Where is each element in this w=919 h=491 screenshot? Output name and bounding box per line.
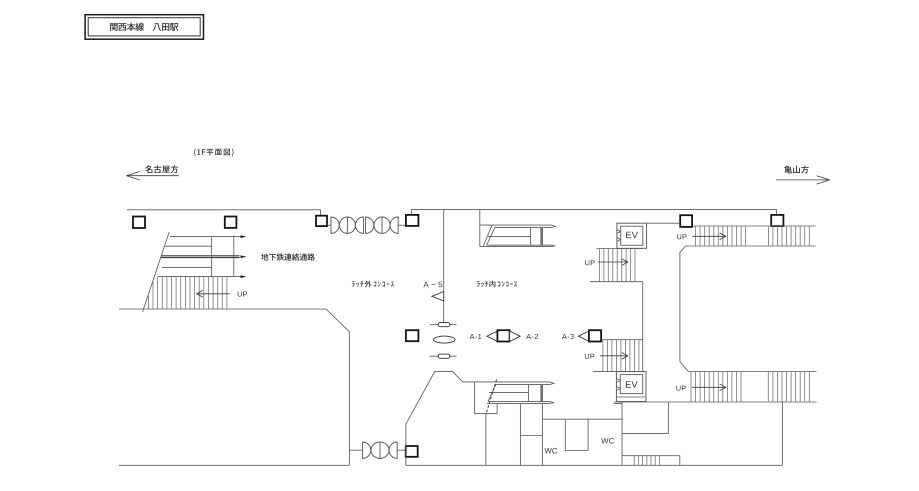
UP label subway stairs — [238, 292, 247, 297]
UP arrow lower right stairs — [692, 386, 726, 388]
small stairs bottom right — [622, 455, 680, 457]
UP arrow lower flight — [600, 355, 628, 357]
escalator (upper) body — [480, 225, 556, 246]
tick below EV — [614, 403, 622, 405]
UP arrow upper right stairs — [693, 235, 727, 237]
upper right stairs to platform — [692, 225, 815, 227]
lower right stair treads — [691, 372, 809, 403]
WC label left — [545, 448, 558, 454]
elevator EV lower box — [616, 372, 646, 402]
escalator (lower) body — [475, 382, 554, 404]
arrow to Kameyama (right) — [776, 179, 830, 181]
title box inner frame — [88, 18, 200, 36]
WC wall 3 — [541, 403, 543, 465]
pillar square at gate row left — [316, 216, 327, 226]
corridor wall left — [642, 282, 644, 372]
wall below escalator diagonal — [485, 415, 487, 466]
label 地下鉄連絡通路 (subway connecting passage) — [261, 253, 315, 260]
label 亀山方 (to Kameyama) — [784, 166, 809, 174]
lower right stairs top edge — [688, 371, 816, 373]
room right of lower EV — [622, 402, 668, 434]
corridor wall right with chamfers — [680, 246, 688, 372]
pillar square left of upper right stairs — [680, 215, 692, 227]
landing line 3 — [162, 267, 212, 269]
concourse wall right of EV — [647, 222, 681, 224]
room under escalator — [475, 382, 498, 414]
A-5 direction triangle — [432, 292, 444, 302]
landing verticals — [211, 237, 213, 277]
hall bottom wall left — [119, 464, 349, 466]
escalator link wall — [479, 210, 481, 247]
A-1/A-2 gate left triangle — [487, 331, 497, 341]
escalator dashed diagonal — [486, 380, 497, 415]
passage arrow 2 — [241, 255, 247, 258]
A-2 label — [526, 334, 538, 339]
landing bottom line — [158, 276, 241, 278]
A-3 gate square — [589, 330, 601, 341]
pillar square at gate row right — [406, 215, 419, 226]
hall bottom wall right — [406, 464, 783, 466]
passage arrow 1 — [241, 235, 247, 238]
top wall right segment — [412, 210, 777, 215]
A-1/A-2 gate right triangle — [510, 331, 520, 341]
EV label lower — [626, 381, 638, 387]
tick wire to ticket gates — [327, 224, 331, 226]
EV label upper — [626, 232, 638, 238]
passage arrow 3 — [241, 275, 247, 278]
WC stall box — [565, 419, 588, 450]
UP arrow upper flight — [598, 261, 629, 263]
UP label lower right stairs — [676, 386, 685, 391]
floor label (1F平面図) — [194, 149, 233, 157]
A-1 label — [470, 334, 482, 339]
entrance pillar square — [406, 446, 418, 457]
pillar square second — [225, 217, 237, 228]
elevator EV upper box — [617, 223, 647, 248]
ticket gate row (2 lanes) top — [331, 217, 398, 233]
arrow to Nagoya (left) — [127, 175, 179, 177]
lower flight top edge — [600, 339, 642, 341]
subway stair slanted edge — [143, 232, 170, 312]
WC wall 1 — [519, 403, 521, 465]
A-1/A-2 gate square — [497, 330, 509, 341]
subway passage landing outline — [170, 236, 234, 238]
entrance tick right — [397, 449, 405, 451]
inner wall with chamfer — [406, 371, 475, 465]
pillar ellipse in A-5 lane — [434, 336, 456, 343]
label 名古屋方 (to Nagoya) — [145, 165, 178, 173]
UP label lower flight — [585, 354, 594, 359]
label ラッチ外コンコース (outside-gate concourse) — [352, 281, 394, 288]
lower flight treads — [603, 340, 639, 372]
A-5 gate machine lower — [430, 355, 457, 357]
pillar square on upper right stairs — [771, 215, 783, 226]
title text 関西本線 八田駅 — [110, 23, 178, 31]
UP arrow subway stairs (left) — [197, 293, 230, 295]
A-3 gate triangle — [579, 331, 589, 341]
platform wall right — [781, 402, 783, 465]
upper flight treads — [599, 249, 635, 282]
lower right stairs bottom edge — [614, 401, 817, 403]
wall below EV lower — [621, 402, 623, 465]
handrail double line — [161, 255, 240, 257]
hall top wall — [119, 309, 349, 465]
pillar square far left — [133, 217, 145, 229]
WC corridor wall — [542, 418, 622, 420]
entrance tick left — [349, 449, 362, 451]
title box outer frame — [85, 15, 203, 40]
upper flight bottom edge — [590, 281, 643, 283]
UP label upper flight — [585, 260, 594, 265]
A-5 label — [423, 282, 442, 288]
A-5 gate machine upper — [430, 324, 457, 326]
upper flight stairs top edge — [596, 248, 643, 250]
entrance ticket gate (1 lane) — [363, 442, 398, 458]
A-3 label — [562, 334, 574, 339]
wall between concourses (A-5 lane) — [443, 210, 445, 323]
pillar square mid row — [406, 330, 419, 341]
tick wire to right pillar — [398, 224, 406, 226]
WC wall 2 — [520, 435, 542, 437]
subway stair treads — [148, 277, 227, 309]
top wall left segment — [127, 210, 321, 216]
lower flight bottom edge — [593, 371, 646, 373]
WC label right — [601, 438, 614, 444]
UP label upper right stairs — [677, 234, 686, 239]
label ラッチ内コンコース (inside-gate concourse) — [477, 281, 517, 288]
